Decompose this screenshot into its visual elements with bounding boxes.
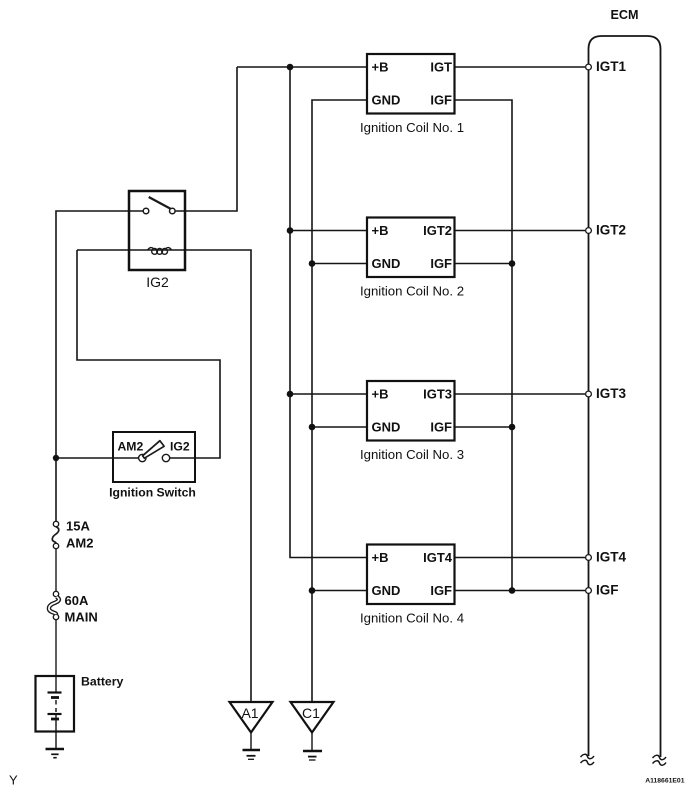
svg-text:Ignition Coil No. 1: Ignition Coil No. 1 (360, 120, 464, 135)
svg-text:GND: GND (372, 93, 401, 108)
svg-text:IGF: IGF (430, 420, 452, 435)
svg-text:Battery: Battery (81, 675, 124, 689)
svg-text:15A: 15A (66, 519, 90, 534)
svg-text:IGT3: IGT3 (596, 386, 626, 401)
svg-text:IGT4: IGT4 (596, 550, 626, 565)
svg-text:AM2: AM2 (66, 536, 93, 551)
svg-text:+B: +B (372, 223, 389, 238)
svg-text:A1: A1 (241, 705, 258, 721)
svg-text:AM2: AM2 (118, 440, 144, 454)
svg-text:Ignition Coil No. 4: Ignition Coil No. 4 (360, 611, 464, 626)
svg-text:Ignition Coil No. 2: Ignition Coil No. 2 (360, 284, 464, 299)
svg-text:IGT3: IGT3 (423, 387, 452, 402)
svg-text:IGT4: IGT4 (423, 550, 453, 565)
svg-text:GND: GND (372, 583, 401, 598)
svg-text:IG2: IG2 (146, 274, 169, 290)
svg-text:+B: +B (372, 387, 389, 402)
svg-text:Y: Y (9, 773, 18, 788)
svg-text:A118661E01: A118661E01 (645, 778, 685, 785)
svg-text:Ignition Switch: Ignition Switch (109, 486, 196, 500)
svg-text:+B: +B (372, 60, 389, 75)
svg-text:GND: GND (372, 256, 401, 271)
svg-text:IG2: IG2 (170, 440, 190, 454)
svg-text:IGF: IGF (430, 583, 452, 598)
svg-text:IGF: IGF (430, 93, 452, 108)
svg-text:ECM: ECM (611, 8, 639, 22)
svg-text:MAIN: MAIN (65, 610, 98, 625)
svg-text:IGF: IGF (596, 583, 619, 598)
svg-text:IGT2: IGT2 (596, 223, 626, 238)
svg-text:C1: C1 (302, 705, 320, 721)
svg-text:IGT: IGT (430, 60, 452, 75)
svg-text:GND: GND (372, 420, 401, 435)
svg-text:IGT2: IGT2 (423, 223, 452, 238)
svg-text:IGT1: IGT1 (596, 59, 626, 74)
svg-text:IGF: IGF (430, 256, 452, 271)
svg-text:+B: +B (372, 550, 389, 565)
svg-text:Ignition Coil No. 3: Ignition Coil No. 3 (360, 447, 464, 462)
svg-text:60A: 60A (65, 593, 89, 608)
